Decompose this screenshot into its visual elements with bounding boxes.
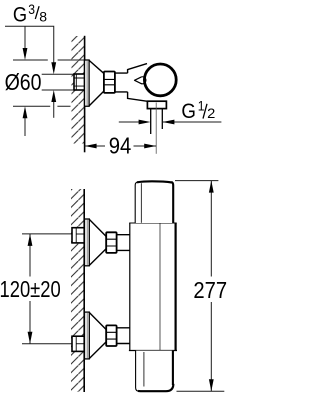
svg-text:1: 1 [198,98,205,114]
svg-text:120±20: 120±20 [0,277,61,302]
svg-text:G: G [181,100,196,123]
svg-text:G: G [13,3,27,27]
svg-text:3: 3 [28,1,35,17]
svg-text:94: 94 [109,132,132,159]
svg-text:277: 277 [193,277,227,304]
svg-text:2: 2 [207,106,215,122]
svg-text:Ø60: Ø60 [5,69,42,95]
svg-text:8: 8 [39,8,47,24]
